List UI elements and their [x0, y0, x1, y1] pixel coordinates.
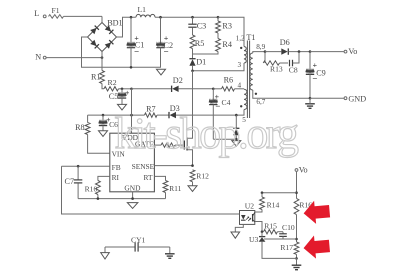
fuse F1	[49, 15, 64, 19]
resistor R2	[104, 87, 119, 91]
wire earth stub	[309, 98, 311, 104]
optocoupler U2 box	[240, 211, 255, 225]
wire D2 to C4 node	[179, 88, 214, 90]
svg-text:D2: D2	[173, 76, 183, 85]
svg-text:RI: RI	[112, 173, 120, 182]
capacitor C10	[279, 234, 287, 237]
wire R3 top lead	[217, 17, 219, 21]
wire D1 to drain node	[192, 66, 194, 71]
wire R13 to C8	[280, 62, 289, 64]
junction C5 node	[121, 88, 124, 91]
wire R8 top lead	[87, 115, 89, 122]
wire C5 to VDD vertical	[131, 89, 133, 133]
shunt regulator U3	[259, 237, 266, 242]
optocoupler U2 transistor	[253, 212, 255, 222]
junction R10 bottom	[97, 197, 100, 200]
wire C7 bottom lead	[77, 183, 79, 198]
wire CY1 earth stub right	[169, 247, 171, 254]
svg-text:F1: F1	[52, 6, 60, 15]
wire to GND terminal	[310, 97, 344, 99]
capacitor CY1	[135, 242, 138, 251]
wire R14 rail	[262, 192, 297, 194]
wire pin8 up	[253, 52, 265, 53]
wire RI pin	[98, 176, 110, 180]
svg-text:U2: U2	[245, 202, 254, 211]
svg-text:Vo: Vo	[299, 166, 308, 175]
svg-text:R2: R2	[108, 78, 117, 87]
wire C7 top lead	[77, 166, 79, 179]
terminal Vo feedback	[295, 169, 298, 172]
wire Vo down	[296, 172, 298, 199]
wire rail to T1 pin1	[218, 17, 244, 46]
svg-text:BD1: BD1	[107, 19, 122, 28]
earth ground secondary	[305, 104, 315, 109]
svg-text:Vo: Vo	[348, 47, 357, 56]
wire FB to opto anode	[235, 213, 240, 215]
svg-text:R8: R8	[75, 123, 85, 132]
inductor L1	[136, 14, 155, 17]
svg-text:D1: D1	[196, 57, 206, 66]
resistor R13	[263, 61, 279, 65]
junction ref tap	[295, 238, 298, 241]
capacitor C3	[188, 24, 196, 27]
svg-text:8,9: 8,9	[256, 43, 265, 51]
red arrow at R17	[303, 234, 331, 259]
wire L to bridge	[64, 15, 103, 17]
svg-text:1,2: 1,2	[236, 35, 245, 43]
resistor R7	[145, 113, 158, 117]
wire bridge right to DC+ rail	[117, 17, 136, 37]
capacitor C9	[306, 70, 314, 74]
junction R3 top	[217, 16, 220, 19]
junction R14 rail	[295, 191, 298, 194]
svg-text:GND: GND	[348, 95, 366, 104]
wire RT pin	[154, 176, 165, 180]
svg-text:C9: C9	[316, 69, 326, 78]
wire R11 bottom lead	[165, 193, 167, 199]
junction VDD branch	[130, 88, 133, 91]
svg-text:R15: R15	[264, 222, 277, 231]
junction R17 bottom	[295, 257, 298, 260]
capacitor C2	[156, 43, 164, 47]
svg-text:FB: FB	[112, 163, 121, 172]
svg-text:L: L	[34, 9, 39, 18]
wire GATE pin	[154, 144, 161, 146]
core T1	[247, 41, 249, 119]
svg-text:R11: R11	[169, 184, 182, 193]
wire to D6	[265, 51, 281, 53]
phase dot aux	[240, 105, 242, 107]
junction C7 top	[77, 165, 80, 168]
terminal Vo	[344, 50, 347, 53]
wire C1 top lead	[130, 17, 132, 43]
wire D4 to gnd line	[235, 136, 237, 140]
earth ground feedback	[292, 265, 302, 270]
wire opto cathode to gnd	[235, 224, 243, 232]
wire C10 bottom lead	[282, 236, 284, 239]
red arrow at R16	[303, 199, 331, 224]
svg-text:C5: C5	[109, 92, 119, 101]
svg-text:N: N	[35, 53, 41, 62]
junction C1 bottom	[130, 66, 133, 69]
junction C4 top	[212, 88, 215, 91]
wire R14 to collector	[255, 210, 262, 213]
ground below D4	[232, 141, 241, 147]
wire down to bridge top	[101, 16, 103, 22]
wire C5 bottom lead	[121, 98, 123, 104]
wire N to bridge	[46, 57, 102, 59]
secondary winding T1	[250, 53, 253, 90]
ground below C2 rail	[157, 69, 166, 75]
ground below IC	[127, 203, 138, 209]
wire C5 node to D2	[132, 88, 172, 90]
svg-text:L1: L1	[138, 5, 147, 14]
capacitor C8	[290, 60, 293, 67]
wire C6 bottom lead	[102, 126, 104, 131]
diode D3	[169, 112, 176, 118]
wire CY1 right	[138, 246, 170, 248]
terminal GND	[344, 97, 347, 100]
wire SENSE pin	[154, 165, 192, 167]
resistor R10	[96, 181, 101, 195]
wire C2 top lead	[160, 17, 162, 43]
wire C5 top lead	[121, 89, 123, 94]
wire CY1 left	[105, 246, 135, 248]
wire R16 to tap	[296, 215, 298, 242]
svg-text:R14: R14	[267, 201, 280, 210]
resistor R6	[222, 87, 235, 91]
terminal N	[43, 56, 46, 59]
junction drain node	[191, 70, 194, 73]
wire R5 to D1	[192, 49, 194, 59]
wire C4 top lead	[212, 89, 214, 100]
wire earth stub fb	[296, 258, 298, 264]
wire R3 to R4	[217, 33, 219, 39]
junction VDD stub	[130, 114, 133, 117]
resistor R9	[161, 143, 175, 147]
junction R14 top	[261, 191, 264, 194]
wire bridge left to gnd rail	[82, 37, 162, 67]
wire rail to clamp	[193, 16, 219, 18]
wire C4 bottom lead	[212, 105, 214, 140]
capacitor C1	[127, 43, 135, 47]
junction pin5 node	[235, 114, 238, 117]
wire snubber left down	[264, 52, 266, 63]
wire R6 to pin4	[235, 88, 245, 90]
wire opto emitter	[255, 222, 262, 232]
wire D6 to node	[288, 51, 310, 53]
junction C3 top	[191, 16, 194, 19]
junction C1 top	[130, 16, 133, 19]
svg-text:R4: R4	[222, 40, 232, 49]
ground below C5	[118, 104, 127, 110]
wire R9 to gate	[175, 144, 184, 146]
bridge rectifier BD1	[88, 23, 117, 52]
ground opto	[231, 232, 240, 238]
svg-text:SENSE: SENSE	[132, 162, 155, 171]
junction C6 top	[102, 114, 105, 117]
resistor R15	[264, 230, 278, 234]
svg-text:−: −	[164, 47, 169, 57]
wire C4 gnd link	[213, 138, 236, 140]
wire pin6 down	[253, 90, 310, 98]
svg-text:3: 3	[238, 61, 242, 69]
wire U3 anode	[262, 242, 297, 259]
capacitor C5	[118, 94, 126, 98]
ground below R12	[188, 186, 197, 192]
wire R17 bottom	[296, 254, 298, 258]
wire pin3 to drain node	[193, 63, 245, 71]
wire node to Vo	[310, 51, 344, 53]
svg-text:C3: C3	[197, 22, 207, 31]
wire R8 to VIN	[88, 135, 110, 154]
capacitor C7	[74, 180, 82, 183]
wire gnd bus	[78, 198, 165, 200]
wire Q1 drain	[187, 71, 192, 139]
resistor R1	[100, 71, 105, 84]
svg-text:R6: R6	[224, 76, 234, 85]
wire bridge bottom down	[101, 52, 103, 71]
wire C4node to R6	[213, 88, 221, 90]
capacitor C6	[99, 121, 107, 125]
resistor R8	[85, 123, 90, 135]
optocoupler U2 LED	[241, 215, 246, 220]
junction C2 top	[159, 16, 162, 19]
svg-text:R12: R12	[196, 172, 209, 181]
wire C3 top lead	[192, 17, 194, 24]
diode D1	[189, 59, 195, 66]
wire R12 bottom lead	[192, 182, 194, 186]
resistor R12	[190, 170, 195, 182]
junction snubber right	[298, 50, 301, 53]
resistor R16	[294, 198, 299, 214]
junction snubber left	[264, 50, 267, 53]
svg-text:R3: R3	[222, 21, 232, 30]
svg-text:R5: R5	[195, 39, 205, 48]
ground CY1 left	[101, 253, 110, 259]
wire R10 bottom lead	[97, 195, 99, 199]
svg-text:C7: C7	[65, 177, 75, 186]
svg-text:−: −	[134, 47, 139, 57]
optocoupler U2 arrows	[246, 217, 251, 221]
junction N-bridge	[101, 56, 104, 59]
svg-text:R17: R17	[280, 243, 293, 252]
wire L1 to C2	[155, 16, 193, 18]
primary winding T1	[244, 47, 247, 64]
wire C9 top lead	[309, 52, 311, 70]
aux winding T1	[244, 89, 247, 109]
wire C8 to snubber right	[293, 52, 299, 63]
wire C10 top lead	[282, 232, 284, 234]
wire CY1 gnd stub left	[104, 247, 106, 253]
junction sense node	[191, 164, 194, 167]
IC U1 box	[110, 133, 155, 192]
svg-text:6,7: 6,7	[256, 98, 265, 106]
wire C6 top lead	[102, 115, 104, 121]
svg-text:U3: U3	[249, 235, 258, 244]
junction D4 anode	[235, 138, 238, 141]
resistor R11	[163, 181, 168, 193]
resistor R4	[216, 39, 221, 52]
resistor R5	[190, 35, 195, 49]
resistor R14	[260, 197, 265, 210]
wire C3 to R5	[192, 27, 194, 35]
svg-text:C10: C10	[282, 223, 295, 232]
svg-text:GND: GND	[124, 184, 141, 193]
phase dot secondary	[255, 93, 257, 95]
transistor Q1	[184, 138, 187, 151]
diode D2	[172, 86, 179, 92]
junction IC gnd	[131, 197, 134, 200]
wire C2 bottom lead	[160, 48, 162, 68]
wire C1 bottom lead	[130, 48, 132, 68]
terminal L	[43, 15, 46, 18]
earth CY1 right	[165, 254, 175, 258]
wire R1 to R2	[102, 84, 104, 89]
wire FB pin	[62, 165, 110, 167]
wire R2 to C5 node	[119, 88, 132, 90]
wire pin5 node down	[235, 115, 237, 128]
junction C9 bottom	[309, 97, 312, 100]
wire D3 to pin5 node	[176, 114, 236, 116]
ground below C6	[99, 131, 108, 137]
svg-text:R13: R13	[270, 64, 283, 73]
diode D4	[233, 128, 239, 135]
phase dot primary	[240, 47, 242, 49]
wire pin5	[236, 110, 244, 116]
wire Q1 source	[187, 150, 192, 166]
wire R7 to D3	[157, 114, 169, 116]
svg-text:−: −	[312, 74, 317, 84]
wire C9 bottom lead	[309, 74, 311, 98]
wire IC GND stub	[132, 192, 134, 199]
wire U3 cathode lead	[261, 232, 263, 237]
wire FB down-around	[62, 166, 240, 214]
diode D6	[281, 48, 288, 54]
junction C9 top	[309, 50, 312, 53]
capacitor C4	[209, 100, 217, 104]
wire R15 to C10	[277, 231, 283, 233]
junction U3 cathode	[261, 230, 264, 233]
wire U3 ref	[264, 238, 297, 240]
svg-text:D6: D6	[280, 38, 290, 47]
svg-text:C8: C8	[289, 66, 298, 75]
resistor R3	[216, 21, 221, 33]
wire VDD rail	[88, 114, 145, 116]
wire R4 to clamp bottom	[193, 52, 219, 55]
svg-text:C4: C4	[222, 98, 231, 107]
resistor R17	[294, 242, 299, 254]
svg-text:RT: RT	[144, 173, 153, 182]
svg-text:kit-shop.org: kit-shop.org	[115, 109, 299, 158]
wire R14 top lead	[261, 193, 263, 197]
